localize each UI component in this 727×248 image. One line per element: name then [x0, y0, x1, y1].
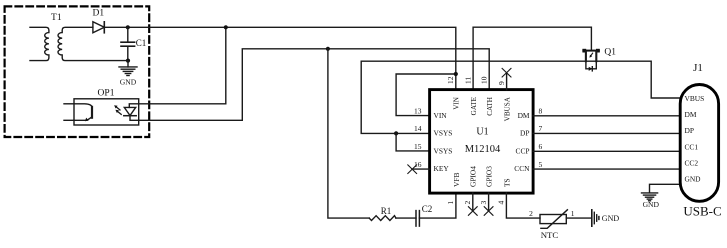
NTC pin numbers [529, 209, 575, 218]
no-connect X pin 9 [502, 68, 511, 77]
svg-text:T1: T1 [51, 13, 62, 23]
svg-text:GND: GND [685, 175, 702, 184]
pin 16 stub (KEY) [412, 168, 430, 170]
svg-text:10: 10 [479, 76, 488, 84]
wire: VIN link pin12-pin13 [396, 74, 456, 116]
svg-text:M12104: M12104 [465, 144, 501, 155]
svg-text:GND: GND [602, 214, 620, 223]
pin 9 stub (VBUSA) [506, 73, 508, 90]
svg-text:GATE: GATE [470, 96, 478, 115]
svg-text:12: 12 [446, 76, 455, 84]
resistor R1 [369, 206, 396, 221]
dashed isolation box [5, 6, 150, 137]
svg-text:5: 5 [539, 160, 543, 169]
LED light arrows [117, 107, 121, 110]
svg-text:CCP: CCP [516, 146, 530, 155]
svg-text:Q1: Q1 [604, 48, 616, 58]
svg-text:D1: D1 [92, 9, 104, 19]
svg-text:13: 13 [414, 107, 422, 116]
svg-text:VBUS: VBUS [685, 94, 705, 103]
wires: DM DP CCP CCN to USB-C [533, 115, 680, 117]
wire: rectified output to VIN (pin 12) [104, 27, 456, 89]
wire: TS (pin 4) to NTC [506, 193, 540, 218]
IC pin numbers [414, 76, 543, 204]
svg-text:CC2: CC2 [685, 158, 699, 167]
node: VSYS pins tie [394, 131, 398, 135]
svg-text:VSYS: VSYS [434, 129, 453, 138]
pin 2 stub (GPIO4) [472, 193, 474, 211]
svg-text:C2: C2 [422, 204, 433, 214]
capacitor C1 [121, 27, 146, 60]
ground GND (below C1) [119, 61, 137, 87]
wire: OP1 cathode to CATH (pin 10) [139, 49, 490, 121]
IC U1 body [430, 90, 533, 194]
svg-text:C1: C1 [136, 38, 147, 48]
wire: NTC to ground [566, 217, 591, 219]
IC pin names [434, 96, 531, 187]
svg-text:3: 3 [479, 201, 488, 205]
node: C1 top junction [126, 25, 130, 29]
svg-text:2: 2 [463, 201, 472, 205]
diode D1 [92, 9, 104, 33]
svg-text:GND: GND [120, 78, 137, 87]
svg-text:GPIO4: GPIO4 [469, 166, 478, 187]
phototransistor [74, 104, 92, 108]
no-connect X pin 3 [484, 207, 493, 216]
svg-text:DM: DM [518, 111, 530, 120]
pin 3 stub (GPIO3) [488, 193, 490, 211]
svg-text:TS: TS [502, 178, 511, 187]
wire: VSYS down to pin 14 [361, 61, 429, 133]
node: junction on top wire [224, 25, 228, 29]
wire: OP1 anode to output net [139, 27, 226, 104]
svg-text:1: 1 [571, 209, 575, 218]
svg-text:GND: GND [643, 200, 660, 209]
svg-text:CC1: CC1 [685, 142, 699, 151]
svg-text:16: 16 [414, 160, 422, 169]
no-connect X pin 2 [468, 207, 477, 216]
LED (anode top, cathode bar below) [129, 104, 138, 108]
svg-text:VIN: VIN [434, 111, 448, 120]
connector J1 USB-C [680, 62, 721, 218]
svg-text:NTC: NTC [541, 230, 559, 240]
svg-text:DP: DP [520, 129, 529, 138]
svg-text:2: 2 [529, 209, 533, 218]
svg-text:KEY: KEY [434, 164, 450, 173]
transistor Q1 (P-MOSFET) [582, 48, 616, 71]
svg-text:6: 6 [539, 142, 543, 151]
wire: feedback branch down to R1 [328, 49, 369, 218]
svg-text:U1: U1 [476, 127, 488, 138]
svg-text:DP: DP [685, 126, 694, 135]
svg-text:CATH: CATH [486, 97, 494, 116]
node: junction on pin 12 column [454, 72, 458, 76]
svg-text:GPIO3: GPIO3 [485, 166, 494, 187]
svg-text:9: 9 [497, 81, 506, 85]
svg-text:DM: DM [685, 110, 697, 119]
wire: J1 GND pin [650, 184, 681, 193]
wire: GATE (pin 11) to Q1 gate [473, 27, 591, 89]
svg-text:J1: J1 [693, 62, 703, 74]
ground GND (J1) [642, 193, 660, 209]
capacitor C2 [416, 204, 432, 226]
svg-text:15: 15 [414, 142, 422, 151]
node: secondary bottom / C1 bottom junction [126, 59, 130, 63]
svg-text:VSYS: VSYS [434, 146, 453, 155]
svg-text:8: 8 [539, 107, 543, 116]
no-connect X pin 16 [408, 165, 417, 174]
svg-text:VIN: VIN [453, 96, 461, 110]
wire: C2 to VFB (pin 1) [419, 193, 456, 218]
wire: VSYS rail to Q1 source / VBUS drain [361, 61, 680, 98]
svg-text:OP1: OP1 [98, 89, 115, 99]
wire: R1 to C2 [396, 217, 416, 219]
svg-text:VFB: VFB [452, 173, 461, 187]
optocoupler OP1 [64, 89, 139, 126]
svg-text:USB-C: USB-C [683, 203, 721, 218]
ground GND (right of NTC, rotated) [592, 210, 620, 226]
wire: tie to pin 15 [396, 133, 430, 151]
svg-text:1: 1 [446, 201, 455, 205]
node: junction on CATH wire [326, 47, 330, 51]
phototransistor pins (left stubs) [64, 103, 74, 105]
svg-text:11: 11 [463, 77, 472, 84]
svg-text:4: 4 [497, 201, 506, 205]
svg-text:VBUSA: VBUSA [504, 96, 512, 121]
svg-text:14: 14 [414, 124, 422, 133]
svg-text:7: 7 [539, 124, 543, 133]
thermistor NTC [540, 210, 567, 240]
svg-text:R1: R1 [381, 206, 392, 216]
transformer T1 [30, 13, 128, 61]
svg-text:CCN: CCN [514, 164, 530, 173]
